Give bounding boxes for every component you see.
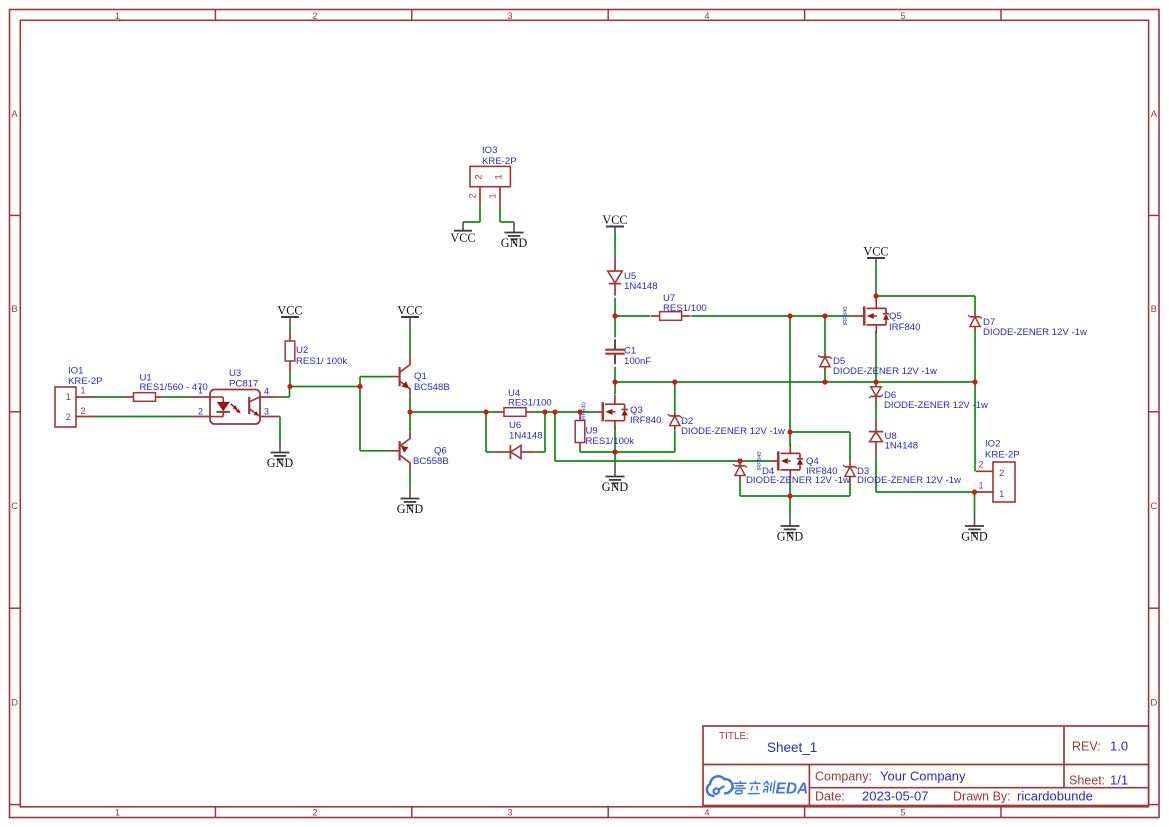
svg-text:U3: U3 xyxy=(229,368,241,379)
svg-text:Drawn By:: Drawn By: xyxy=(953,790,1011,804)
svg-text:1.0: 1.0 xyxy=(1110,739,1128,754)
svg-text:1/1: 1/1 xyxy=(1110,773,1128,788)
svg-text:Your Company: Your Company xyxy=(880,769,966,784)
svg-text:Q1: Q1 xyxy=(414,371,427,382)
svg-text:Sheet_1: Sheet_1 xyxy=(767,740,817,755)
svg-text:2: 2 xyxy=(999,468,1004,479)
svg-text:1: 1 xyxy=(488,193,498,198)
svg-text:B: B xyxy=(11,304,17,315)
svg-text:IRF840: IRF840 xyxy=(889,322,920,333)
svg-text:VCC: VCC xyxy=(602,213,627,227)
svg-text:RES1/100: RES1/100 xyxy=(663,303,707,314)
svg-text:TITLE:: TITLE: xyxy=(719,731,749,742)
svg-text:RES1/100: RES1/100 xyxy=(508,397,552,408)
svg-text:VCC: VCC xyxy=(450,231,475,245)
svg-text:GND: GND xyxy=(602,480,629,494)
svg-text:D: D xyxy=(1150,698,1157,709)
svg-text:BC558B: BC558B xyxy=(413,456,449,467)
svg-text:3: 3 xyxy=(507,11,512,21)
svg-text:B: B xyxy=(1151,304,1157,315)
svg-text:2: 2 xyxy=(312,807,317,817)
svg-text:1: 1 xyxy=(115,11,120,21)
svg-text:GND: GND xyxy=(397,502,424,516)
svg-text:GND: GND xyxy=(501,236,528,250)
svg-text:DIODE-ZENER 12V -1w: DIODE-ZENER 12V -1w xyxy=(681,426,785,437)
svg-text:IRF840: IRF840 xyxy=(806,466,837,477)
svg-text:DIODE-ZENER 12V -1w: DIODE-ZENER 12V -1w xyxy=(884,400,988,411)
svg-text:Company:: Company: xyxy=(815,770,872,784)
svg-text:2: 2 xyxy=(198,407,203,417)
svg-text:VCC: VCC xyxy=(277,303,302,317)
svg-text:D: D xyxy=(11,698,18,709)
svg-text:A: A xyxy=(1151,109,1158,120)
svg-text:ricardobunde: ricardobunde xyxy=(1017,789,1093,804)
svg-text:DIODE-ZENER 12V -1w: DIODE-ZENER 12V -1w xyxy=(833,366,937,377)
svg-text:Date:: Date: xyxy=(815,790,845,804)
svg-text:KRE-2P: KRE-2P xyxy=(482,156,517,167)
svg-text:3: 3 xyxy=(507,807,512,817)
svg-text:2: 2 xyxy=(66,412,71,423)
svg-text:5: 5 xyxy=(900,11,905,21)
svg-text:GND: GND xyxy=(961,530,988,544)
svg-text:1: 1 xyxy=(115,807,120,817)
svg-text:1: 1 xyxy=(999,489,1004,500)
svg-text:U9: U9 xyxy=(586,426,598,437)
svg-text:1N4148: 1N4148 xyxy=(624,281,658,292)
svg-text:3: 3 xyxy=(264,407,269,417)
svg-text:C1: C1 xyxy=(624,346,636,357)
svg-text:RES1/100k: RES1/100k xyxy=(586,436,635,447)
svg-text:KRE-2P: KRE-2P xyxy=(985,450,1020,461)
svg-text:IO3: IO3 xyxy=(482,145,497,156)
svg-text:IRF840: IRF840 xyxy=(630,415,661,426)
svg-text:GND: GND xyxy=(267,456,294,470)
svg-text:IO2: IO2 xyxy=(985,439,1000,450)
svg-text:IO1: IO1 xyxy=(68,366,83,377)
svg-text:C: C xyxy=(11,501,18,512)
svg-text:1: 1 xyxy=(198,386,203,396)
svg-text:PC817: PC817 xyxy=(229,379,258,390)
svg-text:1: 1 xyxy=(80,386,85,396)
svg-text:5: 5 xyxy=(900,807,905,817)
svg-text:DIODE-ZENER 12V -1w: DIODE-ZENER 12V -1w xyxy=(857,475,961,486)
svg-text:1: 1 xyxy=(66,392,71,403)
svg-text:RES1/ 100k: RES1/ 100k xyxy=(296,356,347,367)
svg-text:VCC: VCC xyxy=(863,244,888,258)
svg-text:2: 2 xyxy=(468,193,478,198)
svg-text:1: 1 xyxy=(494,174,505,179)
svg-text:REV:: REV: xyxy=(1072,740,1101,754)
svg-text:IRF840: IRF840 xyxy=(843,306,849,325)
svg-text:Sheet:: Sheet: xyxy=(1069,774,1105,788)
svg-text:Q5: Q5 xyxy=(889,311,902,322)
svg-text:GND: GND xyxy=(777,530,804,544)
svg-text:100nF: 100nF xyxy=(624,356,651,367)
svg-text:2: 2 xyxy=(80,406,85,416)
svg-text:2: 2 xyxy=(312,11,317,21)
svg-text:4: 4 xyxy=(264,387,269,397)
svg-text:1N4148: 1N4148 xyxy=(509,430,543,441)
svg-text:DIODE-ZENER 12V -1w: DIODE-ZENER 12V -1w xyxy=(983,327,1087,338)
svg-text:2: 2 xyxy=(474,174,485,179)
svg-text:1: 1 xyxy=(978,481,983,491)
svg-text:BC548B: BC548B xyxy=(414,382,450,393)
svg-text:A: A xyxy=(11,109,18,120)
svg-text:4: 4 xyxy=(704,807,709,817)
svg-text:C: C xyxy=(1150,501,1157,512)
svg-text:2023-05-07: 2023-05-07 xyxy=(862,789,929,804)
svg-text:4: 4 xyxy=(704,11,709,21)
svg-text:U2: U2 xyxy=(296,345,308,356)
svg-text:2: 2 xyxy=(978,460,983,470)
svg-text:VCC: VCC xyxy=(397,303,422,317)
svg-text:1N4148: 1N4148 xyxy=(885,440,919,451)
svg-text:EDA: EDA xyxy=(776,780,809,797)
